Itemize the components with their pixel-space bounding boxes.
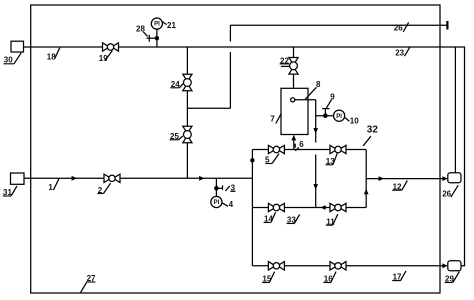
svg-text:18: 18 [47,52,56,61]
svg-text:30: 30 [4,56,13,65]
svg-text:21: 21 [167,21,176,30]
svg-text:8: 8 [316,80,321,89]
svg-text:23: 23 [395,49,404,58]
svg-text:1: 1 [48,183,53,192]
svg-text:26: 26 [394,24,403,33]
svg-text:4: 4 [229,200,234,209]
svg-text:26: 26 [442,189,451,198]
svg-text:6: 6 [299,140,304,149]
svg-text:32: 32 [367,125,379,136]
svg-text:7: 7 [270,114,275,123]
svg-text:10: 10 [350,116,359,125]
